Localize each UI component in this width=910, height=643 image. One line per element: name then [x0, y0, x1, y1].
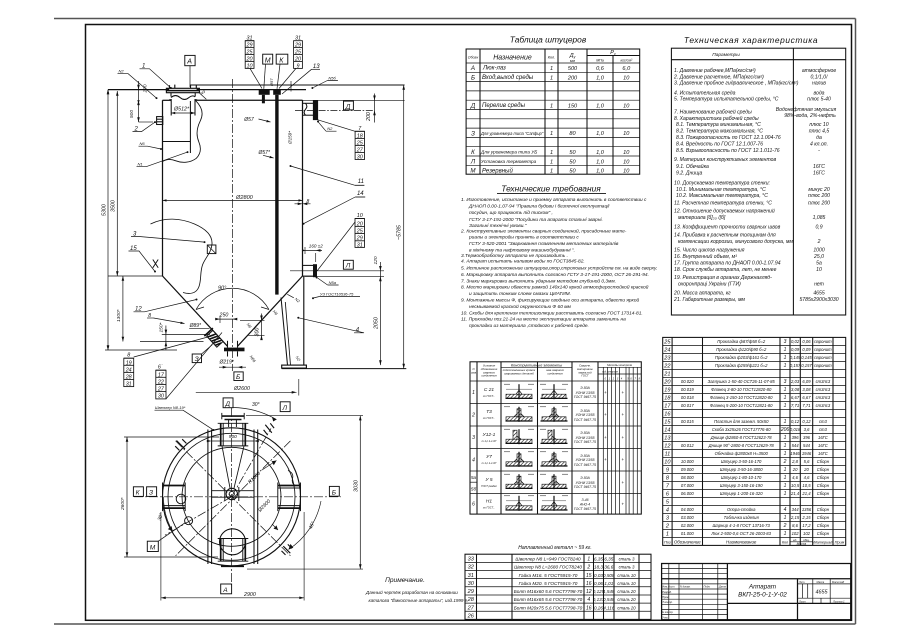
svg-text:Ø159*: Ø159*: [288, 131, 293, 145]
svg-text:28: 28: [125, 375, 132, 381]
svg-text:08.000: 08.000: [681, 475, 694, 480]
svg-text:102: 102: [803, 531, 811, 536]
R1000 circle: [182, 447, 281, 546]
flag A bottom: [221, 584, 232, 594]
svg-text:15. Число циклов нагружения: 15. Число циклов нагружения: [674, 248, 745, 254]
svg-text:паронит: паронит: [814, 339, 832, 344]
svg-text:Обозн: Обозн: [468, 56, 478, 60]
svg-text:М: М: [150, 545, 156, 552]
svg-text:свариваемых деталей: свариваемых деталей: [504, 372, 534, 376]
svg-text:УОНИ 13/55: УОНИ 13/55: [575, 391, 594, 395]
svg-text:+: +: [621, 501, 624, 506]
svg-text:33: 33: [468, 557, 475, 563]
stack left of M: [246, 36, 254, 70]
svg-text:налив: налив: [812, 80, 826, 86]
svg-text:36,6: 36,6: [604, 565, 613, 570]
svg-text:0,145: 0,145: [790, 355, 801, 360]
svg-text:ГОСТ: ГОСТ: [581, 374, 589, 378]
svg-text:23: 23: [663, 356, 671, 362]
svg-text:Опора-стойка: Опора-стойка: [727, 507, 756, 512]
svg-text:200: 200: [567, 75, 578, 81]
svg-text:19: 19: [126, 360, 132, 366]
svg-text:31: 31: [357, 243, 363, 249]
svg-text:1,01: 1,01: [604, 581, 613, 586]
svg-text:Технические требования: Технические требования: [501, 184, 601, 194]
svg-text:27: 27: [356, 147, 364, 153]
strop clamp pos.2 on left wall: [157, 117, 163, 125]
svg-text:Сборн: Сборн: [817, 483, 830, 488]
svg-text:А: А: [186, 59, 192, 66]
svg-text:7. Знаки маркировки выполнить: 7. Знаки маркировки выполнить ударным ме…: [461, 277, 616, 284]
svg-text:Пластин для заземл. 50х50: Пластин для заземл. 50х50: [714, 419, 769, 424]
svg-text:9.2. Днища: 9.2. Днища: [676, 171, 703, 177]
svg-text:9. Монтажные массы Ф, фиксирую: 9. Монтажные массы Ф, фиксирующие сводны…: [461, 297, 639, 304]
svg-text:11: 11: [358, 179, 364, 185]
svg-text:10: 10: [623, 159, 630, 165]
svg-text:5б: 5б: [471, 487, 477, 492]
svg-text:1356: 1356: [802, 507, 812, 512]
svg-text:паронит: паронит: [814, 355, 832, 360]
dim 120: [379, 262, 381, 285]
svg-text:Вход,выход среды: Вход,выход среды: [482, 75, 534, 81]
svg-text:4655: 4655: [816, 590, 829, 596]
svg-text:1: 1: [784, 531, 787, 537]
svg-text:7. Наименование рабочей среды: 7. Наименование рабочей среды: [674, 109, 752, 116]
roof top line: [108, 89, 306, 91]
svg-text:Н.контр.: Н.контр.: [662, 610, 673, 614]
svg-text:Штуцер 3-50-16-170: Штуцер 3-50-16-170: [721, 459, 762, 464]
45deg diagonals: [176, 441, 291, 556]
svg-text:плюс 5-40: плюс 5-40: [807, 97, 831, 103]
svg-text:11. Расчетная температура стен: 11. Расчетная температура стенки, °С: [674, 200, 772, 206]
svg-text:Т.контр.: Т.контр.: [662, 600, 673, 604]
svg-text:4: 4: [784, 507, 787, 513]
svg-text:0,018: 0,018: [790, 427, 801, 432]
svg-text:по ГОСТ...: по ГОСТ...: [483, 394, 496, 398]
svg-text:1: 1: [472, 390, 475, 396]
svg-text:31: 31: [126, 382, 132, 388]
svg-text:29: 29: [356, 236, 363, 242]
svg-text:Э-50А: Э-50А: [580, 431, 590, 435]
svg-text:Днище 90°-2800-8 ГОСТ12629-78: Днище 90°-2800-8 ГОСТ12629-78: [708, 443, 775, 448]
svg-text:У 5: У 5: [485, 477, 492, 483]
dim Ø2600 (front): [196, 391, 297, 393]
svg-text:Прокладка ф87/ф58 б=2: Прокладка ф87/ф58 б=2: [717, 339, 766, 344]
svg-text:У12-1: У12-1: [483, 432, 496, 438]
centre hub: [212, 490, 254, 492]
svg-text:1,548: 1,548: [603, 589, 615, 594]
svg-text:сталь 10: сталь 10: [617, 581, 636, 586]
svg-text:Наплавленный металл ~ 59 кг.: Наплавленный металл ~ 59 кг.: [518, 544, 592, 551]
nozzle D (right top, pos.7): [303, 103, 314, 115]
svg-text:УЗ ГОСТ10536-75: УЗ ГОСТ10536-75: [320, 291, 354, 296]
svg-text:1: 1: [587, 557, 590, 563]
D nozzle flange at top: [222, 416, 244, 419]
svg-text:2: 2: [817, 239, 821, 245]
svg-text:16. Внутренний объем, м³: 16. Внутренний объем, м³: [674, 253, 737, 260]
svg-text:29: 29: [467, 589, 474, 595]
svg-text:Н1: Н1: [486, 498, 492, 504]
svg-text:кгс/см²: кгс/см²: [620, 59, 632, 63]
svg-text:Масса: Масса: [817, 580, 825, 584]
svg-text:8,6: 8,6: [792, 523, 798, 528]
svg-text:30: 30: [468, 581, 475, 587]
svg-text:5. Температура испытательной с: 5. Температура испытательной среды, °С: [674, 96, 779, 103]
svg-text:150: 150: [568, 104, 578, 110]
svg-text:1: 1: [550, 75, 553, 81]
svg-text:25: 25: [356, 228, 364, 234]
svg-text:17: 17: [158, 372, 165, 378]
flag A: [185, 55, 195, 65]
svg-text:30: 30: [357, 154, 363, 160]
svg-text:17,2: 17,2: [802, 523, 811, 528]
svg-text:Л: Л: [470, 158, 476, 165]
svg-text:8: 8: [127, 353, 130, 359]
30deg arc and label: [233, 408, 277, 420]
svg-text:10.000: 10.000: [681, 459, 694, 464]
svg-text:1: 1: [784, 467, 787, 473]
svg-text:А: А: [222, 587, 228, 594]
svg-text:1: 1: [550, 104, 553, 110]
svg-text:ст3: ст3: [819, 427, 828, 432]
svg-text:4,6: 4,6: [804, 475, 810, 480]
svg-text:5а: 5а: [471, 475, 477, 480]
svg-text:Изм.Лист: Изм.Лист: [662, 585, 675, 589]
shell left wall: [162, 100, 164, 276]
svg-text:паронит: паронит: [814, 363, 832, 368]
svg-text:Швеллер N8-19*: Швеллер N8-19*: [155, 405, 186, 410]
svg-text:396: 396: [792, 435, 800, 440]
svg-text:Ø512*: Ø512*: [173, 107, 190, 113]
svg-text:плюс 200: плюс 200: [808, 193, 830, 199]
svg-text:160 ±2: 160 ±2: [309, 243, 323, 248]
top extension line (cover level): [190, 84, 405, 86]
stack right of K: [294, 36, 302, 70]
svg-text:Штуцер 1-80-10-170: Штуцер 1-80-10-170: [721, 475, 762, 480]
svg-text:шва: шва: [471, 370, 477, 374]
svg-text:Д: Д: [224, 401, 230, 408]
svg-text:Сборн: Сборн: [817, 491, 830, 496]
bottom leg channel + manhole circle: [220, 529, 246, 555]
svg-text:Б: Б: [236, 374, 241, 381]
svg-text:6˙: 6˙: [158, 364, 163, 370]
svg-text:+: +: [621, 480, 624, 485]
svg-text:50: 50: [569, 169, 576, 175]
svg-text:1: 1: [784, 443, 787, 449]
svg-text:1: 1: [784, 403, 787, 409]
svg-text:охоронпраці Украіни (ГТИ): охоронпраці Украіни (ГТИ): [678, 281, 741, 287]
svg-text:N1: N1: [138, 162, 143, 167]
svg-text:соединения: соединения: [481, 374, 497, 378]
outlet pipe and flange: [227, 341, 229, 348]
svg-text:Штуцер 1-200-16-320: Штуцер 1-200-16-320: [720, 491, 763, 496]
svg-text:0,145: 0,145: [801, 355, 812, 360]
dim Ø2800: [163, 199, 303, 201]
svg-text:Резервный: Резервный: [482, 167, 513, 174]
flag M lower left: [147, 541, 158, 551]
svg-text:14: 14: [664, 428, 670, 434]
svg-text:24: 24: [663, 348, 670, 354]
svg-text:4,6: 4,6: [792, 475, 798, 480]
svg-text:N2: N2: [327, 126, 333, 131]
svg-text:10,5: 10,5: [802, 483, 811, 488]
svg-text:14. Прибавка к расчетным толщи: 14. Прибавка к расчетным толщинам для: [674, 232, 776, 238]
svg-text:Лист: Лист: [798, 600, 807, 604]
svg-text:Поз: Поз: [664, 540, 671, 544]
svg-text:Люк 2-500-0,6 ОСТ 26-2003-83: Люк 2-500-0,6 ОСТ 26-2003-83: [710, 531, 771, 536]
cone 90deg arc: [196, 288, 269, 309]
svg-text:Д: Д: [345, 103, 351, 110]
svg-text:1946: 1946: [790, 451, 800, 456]
technical characteristics table (Техническая характеристика): [671, 35, 845, 315]
svg-text:ВКП-25-0-1-У-02: ВКП-25-0-1-У-02: [738, 591, 787, 598]
svg-text:102: 102: [792, 531, 800, 536]
svg-text:02.000: 02.000: [681, 523, 694, 528]
svg-text:13. Коэффициент прочности свар: 13. Коэффициент прочности сварных швов: [674, 224, 781, 230]
svg-text:Прокладка ф259/ф221 б=2: Прокладка ф259/ф221 б=2: [715, 363, 768, 368]
svg-text:50: 50: [569, 159, 576, 165]
dim 500: [138, 100, 140, 122]
svg-text:15: 15: [586, 573, 592, 579]
svg-text:8.2. Температура максимальная,: 8.2. Температура максимальная, °С: [676, 129, 763, 135]
svg-text:МПа: МПа: [596, 59, 604, 63]
right leg pos.4: [303, 276, 305, 365]
svg-text:10.1. Минимальная температура,: 10.1. Минимальная температура, °С: [676, 187, 766, 193]
svg-text:19: 19: [664, 388, 670, 394]
fasteners table (bottom centre): [465, 544, 651, 620]
flag L: [343, 260, 353, 269]
flag D (right top): [344, 101, 354, 110]
flag Z: [192, 354, 201, 363]
svg-text:20: 20: [356, 221, 363, 227]
svg-text:8.3. Пожароопасность по ГОСТ 1: 8.3. Пожароопасность по ГОСТ 12.1.004-76: [676, 135, 781, 141]
channel beams vertical: [208, 430, 258, 565]
svg-text:Ø57: Ø57: [269, 78, 274, 87]
svg-text:Перелив среды: Перелив среды: [482, 103, 526, 109]
dim 2600* left: [126, 437, 128, 557]
svg-text:16ГС: 16ГС: [818, 443, 829, 448]
svg-text:Дата: Дата: [718, 585, 726, 589]
svg-text:Ø2600: Ø2600: [233, 386, 250, 392]
svg-text:Листов 1: Листов 1: [832, 600, 845, 604]
svg-text:1. Давление рабочее,МПа(кгс/см: 1. Давление рабочее,МПа(кгс/см²): [674, 68, 756, 74]
svg-text:N5б: N5б: [328, 76, 336, 81]
svg-text:00.020: 00.020: [681, 379, 694, 384]
svg-text:00.015: 00.015: [681, 419, 694, 424]
svg-text:00.018: 00.018: [681, 395, 694, 400]
svg-text:Э-50А: Э-50А: [580, 454, 590, 458]
svg-text:5. Истинное расположение штуце: 5. Истинное расположение штуцеров,опор,с…: [461, 264, 657, 271]
M K nozzle flanges on roof: [259, 89, 270, 94]
svg-text:сталь 3: сталь 3: [619, 565, 636, 570]
svg-text:N2: N2: [119, 69, 125, 74]
svg-text:по ГОСТ...: по ГОСТ...: [483, 505, 496, 509]
svg-text:0,12: 0,12: [791, 419, 800, 424]
inner lines of cut: [189, 101, 191, 153]
svg-text:Ø219*: Ø219*: [219, 359, 235, 365]
svg-text:0,03: 0,03: [594, 573, 603, 578]
svg-text:0,02: 0,02: [791, 339, 800, 344]
weld joints table: [470, 362, 641, 514]
svg-text:25: 25: [356, 140, 364, 146]
right leg channel: [278, 486, 301, 509]
svg-text:10. Скобы для крепления теплои: 10. Скобы для крепления теплоизоляции ра…: [461, 310, 643, 316]
svg-text:32: 32: [468, 565, 475, 571]
svg-text:6: 6: [472, 502, 475, 508]
svg-text:2,03: 2,03: [790, 379, 800, 384]
svg-text:3,08: 3,08: [791, 387, 800, 392]
svg-text:Д: Д: [470, 103, 476, 110]
svg-text:Сборн: Сборн: [817, 507, 830, 512]
svg-text:и защитить тонким слоем смазки: и защитить тонким слоем смазки ЦИАТИМ.: [469, 291, 571, 297]
svg-text:2600*: 2600*: [120, 497, 126, 511]
svg-text:Масштаб: Масштаб: [832, 580, 845, 584]
svg-text:паронит: паронит: [814, 347, 832, 352]
svg-text:0,09: 0,09: [791, 347, 800, 352]
svg-text:25,0: 25,0: [813, 254, 824, 260]
svg-text:вид контроля: вид контроля: [602, 371, 618, 374]
svg-text:Днище ф2860-8 ГОСТ12623-78: Днище ф2860-8 ГОСТ12623-78: [710, 435, 773, 440]
svg-text:396: 396: [803, 435, 811, 440]
svg-text:01.000: 01.000: [681, 531, 694, 536]
svg-text:УОНИ 13/55: УОНИ 13/55: [575, 413, 594, 417]
svg-text:ст3: ст3: [819, 419, 828, 424]
svg-text:9: 9: [666, 468, 669, 474]
small x mark: [153, 260, 158, 268]
svg-text:6,67: 6,67: [802, 395, 811, 400]
svg-text:1946: 1946: [802, 451, 812, 456]
svg-text:плюс 4,5: плюс 4,5: [809, 129, 830, 135]
note (Примечание): [365, 577, 468, 603]
svg-text:вода: вода: [813, 90, 824, 96]
svg-text:0,26: 0,26: [594, 605, 603, 610]
svg-text:18: 18: [664, 396, 671, 402]
svg-text:6,35: 6,35: [604, 557, 613, 562]
M nozzle circle lower-left: [185, 517, 193, 525]
svg-text:компенсации коррозии, минусово: компенсации коррозии, минусового допуска…: [678, 239, 793, 245]
svg-text:Прокладка ф203/ф161 б=2: Прокладка ф203/ф161 б=2: [715, 355, 768, 360]
svg-text:7,71: 7,71: [791, 403, 799, 408]
svg-text:5,6: 5,6: [804, 459, 810, 464]
roof base line: [163, 99, 171, 101]
svg-text:22: 22: [157, 379, 164, 385]
svg-text:С 21: С 21: [484, 387, 494, 393]
30deg line to M (lower-left): [165, 497, 232, 535]
short stub below M flange: [262, 95, 265, 104]
svg-text:Табличка изделия: Табличка изделия: [724, 515, 760, 520]
svg-text:Материал: Материал: [813, 540, 833, 544]
svg-text:2050: 2050: [374, 317, 380, 330]
technical requirements text (Технические требования): [460, 184, 657, 330]
svg-text:16ГС: 16ГС: [813, 171, 825, 177]
svg-text:3: 3: [784, 339, 787, 345]
svg-text:плюс 200: плюс 200: [808, 200, 830, 206]
svg-text:Параметры: Параметры: [712, 52, 740, 58]
svg-text:20: 20: [792, 467, 798, 472]
svg-text:Наименование: Наименование: [726, 539, 757, 544]
local section cut at manhole (wavy): [163, 101, 202, 162]
flags M K: [263, 54, 273, 64]
svg-text:3030: 3030: [353, 480, 359, 492]
K/Z nozzle circle on left: [176, 494, 186, 504]
svg-text:3. Давление пробное гидравличе: 3. Давление пробное гидравлическое , МПа…: [674, 80, 799, 86]
svg-text:09.000: 09.000: [681, 467, 694, 472]
svg-text:12: 12: [664, 444, 671, 450]
svg-text:1: 1: [784, 491, 787, 497]
svg-text:сталь 20: сталь 20: [617, 589, 636, 594]
svg-text:1: 1: [784, 515, 787, 521]
svg-text:плюс 10: плюс 10: [809, 122, 828, 128]
level-gauge pipe pos.13 (black): [275, 95, 278, 295]
svg-text:Назначение: Назначение: [493, 55, 532, 62]
svg-text:ГОСТ 9467-75: ГОСТ 9467-75: [574, 463, 596, 467]
svg-text:Л: Л: [345, 263, 351, 270]
svg-text:26: 26: [467, 614, 475, 620]
svg-text:13: 13: [664, 436, 671, 442]
svg-text:Пров.: Пров.: [662, 595, 669, 599]
svg-text:10: 10: [816, 267, 822, 273]
svg-text:10: 10: [623, 169, 630, 175]
svg-text:Методы контроля: Методы контроля: [607, 363, 632, 367]
svg-text:07.000: 07.000: [681, 483, 694, 488]
svg-text:18,3: 18,3: [594, 565, 603, 570]
svg-text:1: 1: [784, 435, 787, 441]
svg-text:4 кл.оп.: 4 кл.оп.: [810, 142, 828, 148]
svg-text:1: 1: [666, 532, 669, 538]
svg-text:Таблица штуцеров: Таблица штуцеров: [510, 35, 587, 45]
svg-text:1: 1: [550, 150, 553, 156]
svg-text:сталь 10: сталь 10: [617, 573, 636, 578]
svg-text:Штуцер 3-50-16-3800: Штуцер 3-50-16-3800: [720, 467, 763, 472]
svg-text:1: 1: [550, 131, 553, 137]
svg-text:Кол: Кол: [782, 540, 788, 544]
flag D top: [223, 398, 233, 408]
flag L top right: [280, 402, 290, 412]
svg-text:1: 1: [550, 66, 553, 72]
svg-text:10.2. Максимальная температура: 10.2. Максимальная температура, °С: [676, 193, 768, 199]
svg-text:Т3: Т3: [486, 409, 492, 415]
svg-text:риалы и электроды принять в со: риалы и электроды принять в соответствии…: [468, 235, 579, 241]
svg-text:Сборн: Сборн: [817, 515, 830, 520]
svg-text:500: 500: [129, 110, 135, 118]
gusset V-lines from top leg: [222, 446, 230, 489]
svg-text:2: 2: [471, 413, 475, 419]
dims left side bottom: lines: [162, 333, 210, 335]
svg-text:ст3пс3: ст3пс3: [816, 395, 831, 400]
manhole neck: [171, 93, 195, 116]
svg-text:120: 120: [373, 256, 379, 264]
svg-text:К: К: [471, 149, 475, 156]
svg-text:16: 16: [664, 412, 671, 418]
svg-text:Сборн: Сборн: [817, 475, 830, 480]
svg-text:0,157: 0,157: [801, 363, 812, 368]
svg-text:+: +: [621, 435, 624, 440]
svg-text:11. Прокладки поз.21-24 на ме: 11. Прокладки поз.21-24 на месте эксплуа…: [461, 317, 626, 323]
svg-text:1,0: 1,0: [596, 131, 605, 137]
svg-text:16ГС: 16ГС: [818, 435, 829, 440]
svg-text:31: 31: [468, 573, 474, 579]
wavy break on circle top right: [288, 471, 296, 487]
shell right wall: [302, 100, 304, 276]
svg-text:17. Группа аппарата по ДНАОП 0: 17. Группа аппарата по ДНАОП 0.00-1.07.9…: [674, 260, 781, 266]
svg-text:Люк-лаз: Люк-лаз: [482, 66, 506, 72]
svg-text:80: 80: [569, 131, 576, 137]
svg-text:0,12: 0,12: [802, 419, 811, 424]
svg-text:5785х2900х3030: 5785х2900х3030: [799, 297, 838, 303]
svg-text:Аппарат: Аппарат: [748, 584, 777, 591]
svg-text:2: 2: [783, 523, 787, 529]
svg-text:сталь 20: сталь 20: [617, 605, 636, 610]
